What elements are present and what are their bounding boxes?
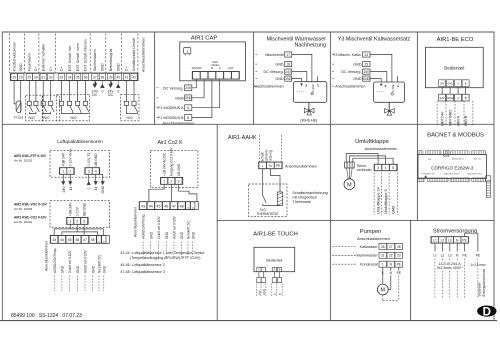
terminal strip B outline (139, 202, 198, 210)
supply terminal L1 (431, 237, 438, 243)
input arrow 40 GND (116, 81, 120, 88)
svg-text:85499 100 SS-1324 07.07.23: 85499 100 SS-1324 07.07.23 (11, 313, 82, 319)
wire GND to actuator (292, 79, 302, 82)
svg-text:39: 39 (109, 76, 113, 80)
label fuse text (438, 261, 464, 270)
svg-text:DC Versorg.: DC Versorg. (163, 86, 184, 90)
frame divider AIR1 CAP / Mischventil (253, 32, 255, 124)
cable separator (dashed) (472, 101, 474, 127)
wire PTF box GND out (100, 174, 103, 181)
actuator dots (377, 91, 386, 93)
svg-text:22: 22 (389, 254, 393, 258)
wire (35, 81, 37, 102)
wire contact bus (43, 112, 51, 114)
strip A terminal 46 (74, 236, 81, 244)
svg-text:GND: GND (175, 96, 184, 100)
wire terminal 19 to sensor (14, 81, 16, 104)
svg-text:33: 33 (60, 76, 64, 80)
row GND 25 (332, 63, 335, 65)
svg-text:Frostschutzsensor: Frostschutzsensor (12, 41, 16, 71)
strip B terminal GND2 (191, 202, 195, 210)
svg-text:3: 3 (83, 219, 85, 223)
svg-text:(WHS HE): (WHS HE) (300, 118, 317, 122)
cable continuation (dashed) (98, 276, 100, 292)
frame divider terminal-cell / AIR1 CAP (154, 32, 156, 124)
svg-text:0-10V: 0-10V (311, 84, 315, 92)
terminal strip A outline (50, 235, 109, 243)
switch blade (29, 106, 32, 112)
wire PE down (dashed) (398, 267, 400, 271)
svg-text:GND: GND (76, 265, 80, 273)
svg-text:Anschlussklemmen: Anschlussklemmen (163, 121, 195, 125)
svg-text:PT1000: PT1000 (14, 115, 24, 119)
cable separator (dashed) (445, 101, 447, 127)
svg-text:HMI A: HMI A (457, 115, 461, 126)
wire L to motor (382, 267, 384, 284)
logo D (477, 306, 496, 317)
TOUCH pin A (272, 267, 276, 271)
svg-text:GND: GND (275, 63, 284, 67)
supply terminal row outline (431, 237, 469, 244)
wire switch to heater (263, 204, 280, 206)
group separator (dashed) (38, 34, 40, 74)
switch blade (70, 106, 73, 112)
svg-text:Umluftklappe: Umluftklappe (355, 139, 389, 145)
svg-text:N/O: N/O (70, 116, 76, 120)
contact point (67, 101, 71, 105)
terminal comb bottom 4 (472, 178, 486, 182)
svg-text:3: 3 (377, 166, 379, 170)
terminal 42 (131, 74, 137, 81)
wire (125, 81, 127, 102)
svg-text:B: B (211, 66, 213, 70)
sensor box PTF (dashed) (50, 151, 110, 178)
svg-text:34: 34 (68, 76, 72, 80)
svg-text:A: A (219, 66, 221, 70)
svg-text:N: N (456, 238, 459, 242)
svg-text:48: 48 (91, 238, 95, 242)
frame bottom border (0, 320, 497, 322)
svg-text:41: 41 (125, 76, 129, 80)
PTF terminal pair outline 1-2 (59, 168, 74, 175)
svg-text:GND: GND (101, 63, 105, 71)
svg-text:2: 2 (76, 219, 78, 223)
wire PE up and over (465, 233, 478, 251)
strip A terminal 47 (81, 236, 88, 244)
wire contact bus (61, 106, 88, 114)
switch blade (134, 106, 137, 112)
wire PTF 4 out (95, 174, 97, 181)
svg-text:0: 0 (87, 188, 91, 190)
terminal 29 (26, 74, 32, 81)
svg-text:43: 43 (69, 187, 73, 191)
row F1 MODBUS B (157, 117, 159, 119)
input arrow 38 GND (101, 81, 105, 88)
svg-text:B: B (465, 96, 467, 100)
Co2K terminal 2 (168, 178, 175, 185)
cable separator (dashed) (396, 173, 398, 215)
Bedienteil box (ECO) (425, 47, 483, 87)
actuator dots (297, 90, 306, 92)
cable separator (dashed) (271, 284, 273, 296)
svg-text:Nennlüft. [V]: Nennlüft. [V] (98, 255, 102, 273)
svg-text:Anschlussklemmen: Anschlussklemmen (365, 147, 398, 151)
svg-text:1: 1 (186, 49, 188, 53)
svg-text:26: 26 (381, 245, 385, 249)
svg-text:Umluftklappe 24: Umluftklappe 24 (377, 187, 381, 214)
svg-text:(Temperaturausgang AIR1/KWL-PT: (Temperaturausgang AIR1/KWL-PTF 0-10V) (130, 256, 201, 260)
svg-text:5: 5 (392, 166, 394, 170)
actuator minus circle (391, 93, 394, 96)
svg-text:+UB 24V AC/DC: +UB 24V AC/DC (163, 152, 167, 176)
cable separator (dashed) (388, 173, 390, 215)
svg-text:G: G (99, 240, 101, 242)
cable continuation (dashed) (192, 242, 194, 258)
frame divider column 3/4 (329, 32, 331, 321)
actuator pin triangle (380, 84, 382, 86)
terminal 39 (107, 74, 113, 81)
row GND (157, 97, 159, 99)
svg-text:1: 1 (69, 219, 71, 223)
svg-text:24V/GND: 24V/GND (192, 68, 202, 70)
terminal comb top 2 (426, 151, 441, 155)
svg-text:Nennlüft. [V]: Nennlüft. [V] (187, 221, 191, 239)
Co2K terminal 3 (175, 178, 182, 185)
CAP terminal row outline (192, 71, 239, 79)
svg-text:45: 45 (157, 204, 161, 208)
svg-text:AIR1 CAP: AIR1 CAP (191, 36, 218, 42)
wire PTF 1 out (62, 174, 64, 181)
wire (133, 81, 135, 102)
wire contact bus (29, 112, 36, 114)
svg-text:F1 MODBUS A: F1 MODBUS A (158, 106, 184, 110)
cable continuation (dashed) (434, 259, 436, 298)
svg-text:20: 20 (19, 76, 23, 80)
svg-text:Art.Nr. 20201: Art.Nr. 20201 (14, 220, 33, 224)
svg-text:C+: C+ (34, 67, 38, 72)
Bedienteil box (TOUCH) (254, 247, 295, 271)
svg-text:0-10V T2: 0-10V T2 (87, 153, 91, 167)
svg-text:Air1 Co2 K: Air1 Co2 K (157, 140, 183, 146)
cable continuation (dashed) (92, 276, 94, 292)
svg-text:Anschlussklemmen: Anschlussklemmen (141, 38, 146, 72)
svg-text:D: D (483, 306, 491, 318)
row DC Versorg. 24V (255, 71, 258, 73)
svg-text:MODBUS RTU: MODBUS RTU (467, 174, 482, 176)
cable continuation (dashed) (142, 242, 144, 258)
svg-text:N: N (390, 271, 393, 275)
svg-text:G: G (193, 207, 195, 209)
contact point (59, 101, 63, 105)
Co2K terminal 1 (161, 178, 168, 185)
svg-text:PE: PE (462, 254, 467, 258)
svg-text:CORRIGO E282W-3: CORRIGO E282W-3 (431, 165, 474, 170)
svg-text:G: G (188, 207, 190, 209)
AAHK terminal L (259, 162, 266, 168)
Umluft terminal 4 (382, 164, 389, 170)
group separator (dashed) (24, 34, 26, 74)
svg-text:C+: C+ (49, 67, 53, 72)
svg-text:N/O: N/O (43, 116, 49, 120)
wire L to thermostat (262, 169, 264, 196)
svg-text:48: 48 (180, 204, 184, 208)
CAP terminal 3 (208, 72, 215, 79)
svg-text:19: 19 (12, 76, 16, 80)
output arrow 37 Sammelalarm (93, 81, 97, 88)
terminal 33 (58, 74, 64, 81)
svg-text:Anschlussklemmen: Anschlussklemmen (335, 85, 365, 89)
Umluft terminal 3 (375, 164, 382, 170)
switch box Feueralarm (dashed) (26, 95, 43, 121)
svg-text:heizung: heizung (269, 150, 273, 162)
svg-text:44: 44 (60, 238, 64, 242)
wire (84, 81, 86, 102)
svg-text:B: B (465, 84, 467, 86)
svg-text:N/O: N/O (28, 116, 34, 120)
svg-text:32: 32 (49, 76, 53, 80)
cable continuation (dashed) (61, 276, 63, 292)
terminal 34 (66, 74, 72, 81)
svg-text:Warmwasser: Warmwasser (356, 254, 378, 258)
contact point (27, 101, 31, 105)
svg-text:25: 25 (365, 62, 369, 66)
label Anschlussklemmen (332, 85, 335, 87)
wire actuator to valve (308, 102, 310, 110)
svg-text:GND: GND (392, 205, 396, 214)
temperature sensor PT1000 (16, 101, 21, 113)
wire VOC 2 to strip rail (62, 224, 98, 235)
svg-text:DC Versorg.: DC Versorg. (341, 70, 361, 74)
svg-text:43: 43 (141, 204, 145, 208)
TOUCH terminal 24V (257, 278, 261, 283)
wire (42, 81, 44, 102)
svg-text:Abluft set 0-10V: Abluft set 0-10V (173, 215, 177, 239)
row GND 18 (255, 63, 258, 65)
svg-text:21: 21 (381, 254, 385, 258)
svg-text:+: + (258, 269, 260, 272)
cable separator left (dashed) (259, 135, 261, 162)
svg-text:Pumpen: Pumpen (360, 229, 382, 235)
svg-text:37: 37 (93, 76, 97, 80)
actuator pin marks (385, 85, 387, 86)
svg-text:AIR1-BE ECO: AIR1-BE ECO (437, 37, 474, 43)
wire pin down (262, 272, 264, 278)
svg-text:AIR1-AAHK: AIR1-AAHK (228, 135, 257, 141)
svg-text:EXT Schalt. min: EXT Schalt. min (68, 46, 72, 72)
cable separator (dashed) (281, 284, 283, 296)
actuator box U2 (Y3) (374, 82, 405, 102)
heater box (dashed) (249, 184, 288, 217)
switch blade (85, 106, 88, 112)
svg-text:24: 24 (365, 53, 369, 57)
contact point (41, 101, 45, 105)
svg-text:M: M (347, 182, 352, 188)
svg-text:31: 31 (41, 76, 45, 80)
svg-text:BACNET & MODBUS: BACNET & MODBUS (427, 132, 484, 138)
svg-text:GND: GND (102, 265, 106, 273)
svg-text:24V: 24V (185, 86, 192, 90)
svg-text:Bedienteil: Bedienteil (266, 259, 282, 263)
group separator (dashed) (105, 34, 107, 74)
supply terminal L3 (446, 237, 453, 243)
pump row Kaltwasser (332, 245, 356, 247)
svg-text:Erdungsanschluss: Erdungsanschluss (482, 268, 486, 296)
svg-text:DC Versorg.: DC Versorg. (264, 70, 284, 74)
svg-text:Betriebssignal: Betriebssignal (109, 49, 113, 72)
svg-text:0: 0 (117, 89, 119, 93)
motor M1 Umluftklappe (344, 179, 355, 190)
cable separator right (dashed) (280, 135, 282, 162)
svg-text:C+: C+ (60, 67, 64, 72)
wire (69, 81, 71, 102)
ECO device pin B (462, 80, 469, 87)
valve Y (WHS HE) three-way (304, 108, 314, 115)
switch box EXT Schalter (dashed) (56, 95, 89, 121)
terminal strip X1 outline (10, 73, 138, 81)
cable continuation (dashed) (187, 242, 189, 258)
svg-text:28: 28 (397, 245, 401, 249)
cable continuation (dashed) (53, 276, 55, 292)
svg-text:36: 36 (84, 76, 88, 80)
svg-text:A: A (273, 293, 277, 295)
wire (50, 81, 52, 102)
cable separator (dashed) (276, 284, 278, 296)
wire VOC 1 to strip rail (54, 224, 103, 235)
CAP display icon (184, 48, 191, 54)
wire PTF 2 out (69, 174, 71, 181)
svg-text:Externer Schalter: Externer Schalter (42, 43, 46, 72)
svg-text:G: G (104, 240, 106, 242)
Umluft terminal row outline (374, 164, 397, 171)
terminal comb top 3 (451, 151, 470, 155)
svg-text:Abluft set 0-10V: Abluft set 0-10V (84, 249, 88, 273)
svg-text:Feueralarm: Feueralarm (28, 53, 32, 71)
svg-text:N: N (456, 254, 459, 258)
wire N to heater (270, 169, 280, 192)
CAP terminal 1 (193, 72, 200, 79)
AAHK terminal N (267, 162, 274, 168)
svg-text:GND: GND (149, 231, 153, 239)
svg-text:GND: GND (165, 231, 169, 239)
svg-text:L: L (262, 164, 264, 168)
terminal 35 (75, 74, 81, 81)
terminal comb bottom 2 (428, 178, 449, 182)
svg-text:GND: GND (101, 185, 105, 193)
svg-text:AGND AI UI: AGND AI UI (452, 157, 464, 160)
cable separator (dashed) (265, 284, 267, 296)
svg-text:B: B (187, 116, 190, 120)
svg-text:4: 4 (385, 166, 387, 170)
svg-text:18: 18 (286, 62, 290, 66)
cable separator (dashed) (373, 173, 375, 215)
cable separator (dashed) (260, 284, 262, 296)
cable separator (dashed) (255, 284, 257, 296)
cable separator (dashed) (436, 101, 438, 127)
contact point (49, 101, 53, 105)
svg-text:GND: GND (448, 84, 453, 86)
svg-text:GND: GND (353, 77, 362, 81)
svg-text:mit integriertem: mit integriertem (293, 195, 318, 199)
svg-text:B: B (278, 293, 282, 295)
wire (77, 81, 79, 102)
svg-text:BACNET MSTP: BACNET MSTP (444, 173, 460, 176)
group separator (dashed) (120, 34, 122, 74)
terminal comb bottom 1 (418, 178, 424, 182)
ECO device pin GND (447, 80, 454, 87)
cable continuation (dashed) (103, 276, 105, 292)
actuator minus circle (311, 92, 314, 95)
supply terminal L2 (439, 237, 446, 243)
frame divider column 4/5 lower (410, 220, 412, 320)
row Mischventil 17 (255, 54, 258, 56)
cable continuation (dashed) (84, 276, 86, 292)
contact point (76, 101, 80, 105)
svg-text:separater: separater (477, 281, 481, 296)
AAHK terminal row outline (259, 162, 283, 169)
pump row Kondensat (332, 263, 356, 265)
ECO terminal 24V (439, 94, 446, 101)
svg-text:U: U (397, 84, 400, 88)
svg-text:1: 1 (62, 170, 64, 174)
wire motor to dashed bus (382, 295, 384, 301)
svg-text:+24V: +24V (227, 66, 233, 70)
svg-text:AIR1-BE TOUCH: AIR1-BE TOUCH (253, 232, 298, 238)
wires terminals down (434, 243, 436, 252)
svg-text:GND: GND (19, 63, 23, 71)
svg-text:Anschlussklemmen: Anschlussklemmen (285, 165, 317, 169)
svg-text:Bedienteil: Bedienteil (444, 66, 464, 71)
output arrow 39 Betriebssignal (109, 81, 113, 88)
dashed bus (383, 299, 399, 301)
svg-text:44: 44 (94, 187, 98, 191)
svg-text:47: 47 (83, 238, 87, 242)
svg-text:3: 3 (88, 170, 90, 174)
wire GND to CAP terminal 2 (192, 79, 204, 98)
actuator pin triangle (300, 84, 302, 86)
svg-text:Zuluft set 0-10V: Zuluft set 0-10V (157, 216, 161, 239)
ECO device pin 24V (439, 80, 446, 87)
svg-text:40: 40 (116, 76, 120, 80)
port icon (444, 150, 449, 156)
svg-text:Y3 Mischventil Kaltwassersatz: Y3 Mischventil Kaltwassersatz (338, 36, 411, 42)
svg-text:PE: PE (397, 263, 402, 267)
label Anschlussklemmen (255, 85, 258, 87)
strip A terminal 48 (89, 236, 96, 244)
svg-text:Art.Nr. 20202: Art.Nr. 20202 (14, 159, 33, 163)
cable continuation (dashed) (181, 242, 183, 258)
svg-text:Ausgang Co2 0-10V: Ausgang Co2 0-10V (170, 147, 174, 177)
CAP terminal 6 (232, 72, 239, 79)
svg-text:L1: L1 (433, 254, 437, 258)
switch blade (51, 106, 54, 112)
strip B terminal 48 (178, 202, 185, 210)
svg-text:A: A (457, 83, 459, 86)
wire Co2K 1 to strip 44 (149, 184, 164, 201)
svg-text:N: N (390, 263, 393, 267)
wire GND to actuator (370, 79, 381, 82)
svg-text:GND: GND (116, 63, 120, 71)
VOC terminal 3 (81, 218, 88, 225)
svg-text:A: A (273, 269, 275, 272)
terminal comb top 4 (471, 151, 485, 155)
svg-text:24V: 24V (62, 186, 66, 193)
svg-text:4: 4 (95, 170, 97, 174)
svg-text:Zuluft set 0-10V: Zuluft set 0-10V (68, 250, 72, 273)
svg-text:THERMOSTAT: THERMOSTAT (256, 212, 278, 216)
svg-text:L2: L2 (441, 254, 445, 258)
cable separator (dashed) (463, 101, 465, 127)
wire contact bus (126, 106, 137, 114)
